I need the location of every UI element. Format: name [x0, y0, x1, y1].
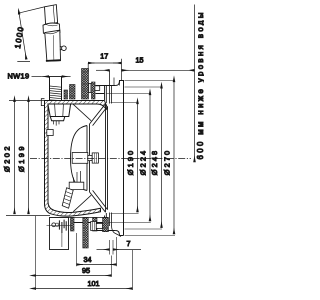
svg-text:15: 15 — [136, 56, 144, 65]
dim Ø270 line — [173, 82, 175, 234]
svg-text:Ø202: Ø202 — [3, 144, 12, 172]
lamp bulb paraboloid — [71, 126, 88, 191]
trim bottom lip curve — [112, 213, 122, 237]
glass pane verticals — [106, 104, 108, 212]
dark block B (clamp bracket top) — [82, 69, 89, 100]
funnel diagonals to opening — [90, 104, 108, 212]
clamp bolt top — [89, 84, 100, 93]
dim Ø224 line — [149, 95, 151, 221]
svg-text:Ø190: Ø190 — [126, 149, 135, 175]
NW19 dim arrows — [42, 76, 49, 78]
bottom cluster: hatched bar A' — [71, 218, 75, 232]
hose conduit upper segment — [45, 5, 58, 25]
dim Ø248 line — [161, 88, 163, 227]
lamp rim band — [87, 124, 90, 192]
dim 7 — [97, 249, 110, 251]
dim 101 — [36, 288, 133, 290]
small hatched bar A0 — [64, 90, 68, 99]
trim ring top profile — [116, 81, 124, 236]
bottom extension verticals — [36, 216, 133, 290]
dim Ø202 line — [14, 102, 16, 214]
dim Ø190 line — [137, 104, 139, 212]
bulb clamp bolt — [88, 153, 99, 163]
dim Ø199 line — [28, 102, 30, 214]
dim 1000 extension lines — [17, 7, 44, 62]
dim 34 — [77, 264, 83, 266]
niche front flange bottom — [74, 213, 116, 231]
dim 1000 line — [19, 14, 26, 59]
dim 17 — [88, 62, 94, 64]
dark block B2' — [103, 218, 109, 232]
niche pot wall section (hatched band) — [45, 101, 108, 217]
svg-text:7: 7 — [127, 239, 131, 248]
right extension lines top — [107, 81, 176, 103]
pot rim foot top-left — [41, 99, 44, 106]
top extension for left dims — [9, 100, 45, 102]
svg-text:95: 95 — [82, 266, 90, 275]
hose lower segment — [45, 30, 61, 61]
trim inner lip verticals top — [110, 70, 112, 103]
cable gland stud with threads — [49, 77, 62, 102]
svg-text:Ø199: Ø199 — [17, 144, 26, 172]
lamp holder steps — [74, 171, 81, 187]
clamp bolt bottom — [91, 222, 103, 231]
niche inner shoulder diagonals — [73, 104, 91, 211]
bottom extension for left dims — [6, 215, 50, 217]
gland hex nut inside pot — [48, 104, 71, 126]
centerline axis — [30, 158, 191, 160]
dark column B' — [83, 218, 88, 249]
svg-text:Ø270: Ø270 — [163, 149, 172, 175]
hatched bar A (gasket left) — [70, 85, 76, 100]
svg-text:Ø224: Ø224 — [139, 149, 148, 175]
NW19 leader — [32, 76, 42, 78]
dim 15 — [96, 69, 109, 71]
svg-text:NW19: NW19 — [8, 71, 30, 80]
svg-text:17: 17 — [100, 51, 108, 60]
hatched bar C (gasket right) — [92, 82, 96, 99]
stamp box below pot — [47, 218, 73, 250]
niche front flange top — [96, 86, 116, 104]
hose clamp screw — [60, 46, 66, 51]
right extension lines bottom — [109, 214, 176, 236]
boss on inner left wall — [47, 130, 53, 136]
hatched bar C' — [93, 218, 97, 232]
lamp cable — [62, 188, 73, 208]
svg-text:Ø248: Ø248 — [150, 149, 159, 175]
cluster baseline — [50, 217, 109, 219]
svg-text:34: 34 — [84, 255, 92, 264]
dim 600 vertical line — [194, 5, 196, 163]
lamp plug box — [69, 182, 84, 189]
trim ring bottom profile — [116, 231, 124, 236]
bulb latch — [72, 153, 88, 164]
dim 95 — [36, 275, 112, 277]
svg-text:101: 101 — [88, 279, 100, 288]
hose coupling — [43, 23, 60, 34]
svg-text:600 мм ниже уровня воды: 600 мм ниже уровня воды — [196, 10, 204, 159]
